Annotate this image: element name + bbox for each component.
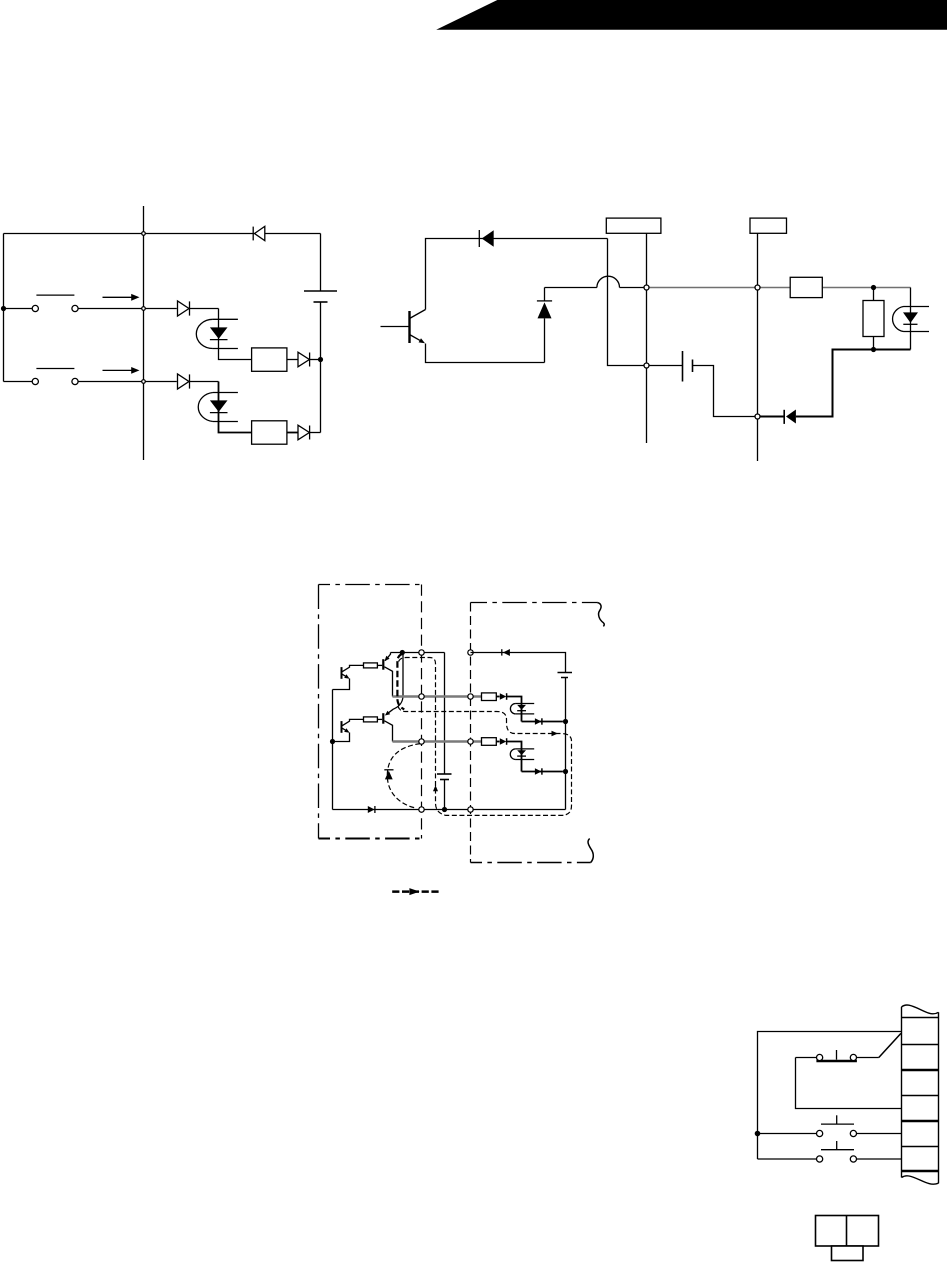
switch S2 contacts bbox=[32, 369, 78, 385]
transistor Q2a (small, stage 1) bbox=[333, 665, 364, 689]
diode D15 (filled, pointing right) bbox=[535, 768, 542, 774]
junction dot (top rail) bbox=[400, 650, 405, 655]
resistor box R2 bbox=[252, 421, 287, 444]
wire bbox=[287, 432, 298, 434]
wire bbox=[377, 718, 382, 720]
flow arrow (right, on dashed path) bbox=[552, 731, 559, 736]
terminal block strip bbox=[902, 1005, 939, 1184]
channel 2 wire to opto bbox=[507, 742, 522, 749]
legend : dashed arrow sample bbox=[392, 888, 439, 895]
diode D13 (filled, pointing right) bbox=[535, 718, 542, 724]
node (row1 on main bus) bbox=[142, 307, 146, 311]
wire : row1 lead-in bbox=[4, 308, 33, 310]
wire : emitter rail bbox=[426, 344, 545, 363]
junction dot bbox=[563, 719, 568, 724]
wire : row1 drop to opto bbox=[219, 309, 252, 360]
diode D8 (filled, pointing left) bbox=[784, 410, 796, 424]
junction dot bbox=[755, 1131, 761, 1137]
wire : capacitor branch bbox=[444, 653, 446, 775]
wire : emitter net to node V1 (with hop) bbox=[545, 276, 645, 287]
channel 1 bottom wire bbox=[522, 721, 563, 723]
wire : switch to node row2 bbox=[78, 381, 177, 383]
wire : loop up to opto bbox=[796, 350, 911, 417]
wire : row2 drop to opto bbox=[219, 382, 252, 433]
wire : contact return bbox=[796, 1058, 902, 1109]
diode D9 (bottom rail, pointing right) bbox=[368, 806, 375, 813]
wire : emitter of stage2 to top rail (s-curve) bbox=[387, 653, 404, 715]
junction dot bbox=[330, 739, 335, 744]
channel 2 wire bbox=[496, 741, 499, 743]
battery B3 bbox=[558, 673, 573, 810]
box label B bbox=[750, 218, 787, 233]
contact row A bbox=[758, 1115, 902, 1136]
connector plug bbox=[816, 1216, 879, 1261]
transistor Q2b (driver, stage 1) bbox=[383, 653, 392, 697]
transistor Q3b (driver, stage 2) bbox=[383, 711, 392, 742]
channel 1 : resistor R6 bbox=[482, 693, 497, 701]
channel 1 wire to opto bbox=[507, 697, 522, 704]
wire bbox=[287, 359, 298, 361]
bottom rail bbox=[333, 809, 566, 811]
box label A bbox=[606, 218, 661, 233]
battery B1 bbox=[304, 234, 337, 433]
current flow path (thin dashed loop) bbox=[397, 658, 571, 816]
diode D12 (filled, pointing right) bbox=[500, 693, 507, 700]
channel 1 wire bbox=[496, 696, 499, 698]
current flow path (bold dashed) bbox=[397, 654, 404, 710]
flow arrow (up, on dashed path) bbox=[433, 785, 438, 791]
flow arrow row1 bbox=[103, 294, 140, 301]
wire : load box top rail bbox=[471, 653, 566, 673]
node (top bus crossing) bbox=[142, 232, 146, 236]
wire : bottom loop bbox=[760, 416, 783, 418]
optocoupler LED PC5 bbox=[510, 749, 534, 772]
optocoupler LED PC2 bbox=[198, 393, 238, 422]
diode D1 (top, pointing left) bbox=[253, 226, 265, 240]
battery B2 bbox=[649, 351, 755, 417]
resistor R4 bbox=[364, 663, 378, 668]
transistor Q1 bbox=[381, 310, 426, 344]
wire : top rail bbox=[391, 652, 445, 654]
junction dot (left bus / row1) bbox=[1, 306, 6, 311]
contact row B bbox=[758, 1141, 902, 1162]
load box (right, dash-dot border) bbox=[471, 603, 598, 863]
transistor Q3a (small, stage 2) bbox=[333, 719, 364, 741]
wire : top horizontal bus bbox=[4, 233, 321, 235]
wire bbox=[377, 664, 382, 666]
diode D11 (filled, pointing left) bbox=[502, 649, 510, 656]
wire : vertical line V2 bbox=[757, 233, 759, 461]
module box left : right border (dashed terminal line) bbox=[421, 585, 423, 839]
module box (left, dash-dot border) bbox=[319, 585, 422, 839]
wire : contact arm diagonal bbox=[879, 1033, 901, 1057]
diode D4 (row2, pointing right) bbox=[178, 374, 219, 389]
resistor box R3 (vertical) bbox=[863, 288, 884, 350]
diode D7 (filled, pointing up) bbox=[537, 288, 552, 363]
wire : left vertical bus bbox=[3, 234, 5, 382]
node circles on V1/V2 bbox=[644, 285, 649, 290]
relay contact K1 (top) bbox=[796, 1050, 879, 1061]
diode D6 (filled, pointing left) bbox=[479, 230, 493, 247]
wire : collector rail bbox=[426, 239, 608, 310]
optocoupler LED PC3 bbox=[893, 288, 929, 350]
junction dot bbox=[871, 347, 876, 352]
junction dot (right bus) bbox=[318, 357, 323, 362]
wire : horizontal gray rail bbox=[649, 287, 911, 289]
rail 1 (gray) bbox=[393, 695, 482, 697]
terminal circles on module box bbox=[419, 650, 424, 655]
diode D2 (row1, pointing right) bbox=[178, 301, 219, 316]
terminal circles on load box bbox=[468, 650, 473, 655]
diode D3 (row1 output, pointing right) bbox=[298, 352, 321, 367]
channel 2 bottom wire bbox=[522, 771, 563, 773]
diode D5 (row2 output, pointing right) bbox=[298, 425, 321, 440]
junction dot bbox=[563, 769, 568, 774]
resistor box R1 bbox=[252, 348, 287, 371]
rail 2 (gray) bbox=[393, 740, 482, 742]
break squiggle (bottom) bbox=[588, 839, 593, 863]
load box left border (dashed) bbox=[470, 603, 472, 863]
wire : row2 lead-in bbox=[4, 381, 33, 383]
break squiggle (top) bbox=[597, 603, 604, 627]
optocoupler LED PC1 bbox=[196, 319, 238, 348]
channel 2 : resistor R7 bbox=[482, 738, 497, 746]
junction dot (capacitor / bottom rail) bbox=[442, 807, 447, 812]
optocoupler LED PC4 bbox=[510, 704, 534, 722]
wire : vertical line V1 bbox=[646, 233, 648, 443]
diode D10 (on dashed arc, pointing up) bbox=[384, 770, 393, 780]
wire : switch to node row1 bbox=[78, 308, 177, 310]
flow arrow row2 bbox=[103, 367, 140, 374]
diode D14 (filled, pointing right) bbox=[500, 738, 507, 745]
node (row2 on main bus) bbox=[142, 380, 146, 384]
freewheel path (dashed arc) bbox=[387, 744, 420, 808]
wire : collector branch down to node bbox=[608, 239, 645, 366]
wire : emitter return bus bbox=[332, 690, 334, 810]
switch S1 contacts bbox=[32, 295, 78, 312]
resistor box R8 (on gray rail) bbox=[790, 277, 822, 297]
junction dot bbox=[871, 285, 876, 290]
wire : top loop bbox=[758, 1032, 902, 1160]
header banner bbox=[436, 0, 947, 30]
resistor R5 bbox=[364, 717, 378, 722]
wire : main vertical bus bbox=[143, 206, 145, 460]
capacitor C1 bbox=[437, 774, 452, 810]
